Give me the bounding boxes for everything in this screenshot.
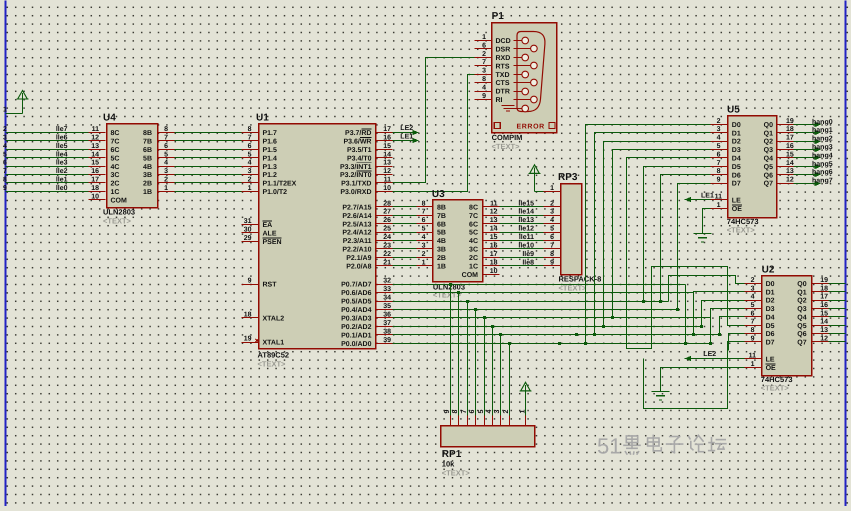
svg-text:8: 8 [248, 126, 252, 133]
wire P0.7/AD7 bus row [393, 284, 686, 286]
svg-text:D1: D1 [766, 289, 775, 296]
svg-text:3B: 3B [143, 172, 152, 179]
wire U5 D2 to P0 bus vertical [602, 142, 711, 329]
svg-text:14: 14 [490, 226, 498, 233]
svg-text:38: 38 [383, 328, 391, 335]
svg-text:ERROR: ERROR [517, 123, 545, 130]
power terminal top-left [3, 91, 28, 114]
svg-text:2C: 2C [111, 181, 120, 188]
wire P0.0/AD0 bus row [393, 343, 711, 345]
svg-text:2: 2 [717, 118, 721, 125]
svg-text:3: 3 [550, 209, 554, 216]
svg-text:P3.7/RD: P3.7/RD [345, 129, 371, 137]
svg-text:14: 14 [91, 151, 99, 158]
wire U1 P2.3 to U3 4B [393, 240, 417, 242]
svg-text:lle9: lle9 [522, 250, 534, 258]
wire lle3 left-edge to U4 pin 15 [3, 159, 89, 167]
U2 pin 3 D1 [745, 285, 775, 296]
svg-text:hang1: hang1 [812, 126, 833, 134]
svg-text:23: 23 [383, 243, 391, 250]
svg-text:P0.0/AD0: P0.0/AD0 [341, 340, 371, 348]
svg-text:11: 11 [92, 126, 100, 133]
U2 pin 18 Q1 to right edge [797, 285, 845, 296]
U1 pin 14 P3.4 [347, 151, 393, 162]
svg-text:XTAL1: XTAL1 [263, 340, 285, 347]
wire P0.3/AD3 bus row [393, 317, 711, 319]
U3 pin 12 output 7C [469, 209, 499, 220]
wire U3 6C to RP3 pin 4 net lle13 [500, 216, 544, 224]
wire RP1 pin 3 pull-up to P0 row [499, 333, 502, 416]
svg-text:COM: COM [111, 198, 128, 205]
RP1 pin 7 [461, 410, 468, 426]
svg-text:1: 1 [519, 410, 526, 414]
svg-text:5: 5 [164, 151, 168, 158]
svg-text:10: 10 [383, 185, 391, 192]
svg-text:P0.3/AD3: P0.3/AD3 [341, 315, 371, 323]
svg-text:29: 29 [244, 235, 252, 242]
svg-text:9: 9 [248, 278, 252, 285]
U1 pin 32 P0.7/AD7 [341, 278, 392, 289]
svg-text:lle3: lle3 [56, 159, 68, 167]
svg-text:1C: 1C [469, 264, 478, 271]
U5 pin 14 Q5 to terminal hang5 [764, 160, 833, 171]
svg-text:lle8: lle8 [522, 258, 534, 266]
U1 pin 5 P1.4 [242, 151, 278, 162]
wire under-route to U2 D7 [644, 342, 745, 409]
svg-text:34: 34 [383, 295, 391, 302]
U2 pin 16 Q3 to right edge [797, 302, 845, 313]
svg-text:8C: 8C [469, 204, 478, 211]
U4 pin 8 output 8B [143, 126, 174, 137]
U5 pin 12 Q7 to terminal hang7 [764, 177, 833, 188]
U3 pin 15 output 4C [469, 234, 499, 245]
wire U5 D4 loop via over-route to U2 D5 [627, 158, 745, 349]
wire U5 D3 to P0 bus vertical [611, 150, 711, 320]
svg-text:18: 18 [490, 259, 498, 266]
wire P0.7 cross vertical [684, 285, 687, 346]
U1 pin 16 P3.6 [343, 135, 392, 146]
wire lle0 left-edge to U4 pin 18 [3, 184, 89, 192]
svg-text:2: 2 [422, 251, 426, 258]
U1 pin 8 P1.7 [242, 126, 278, 137]
svg-text:13: 13 [91, 143, 99, 150]
U2 pin 5 D3 [745, 302, 775, 313]
svg-text:11: 11 [384, 177, 392, 184]
svg-text:1: 1 [3, 107, 7, 114]
svg-text:hang0: hang0 [812, 118, 833, 126]
svg-text:10k: 10k [442, 460, 455, 469]
U2 pin 13 Q6 to right edge [797, 327, 845, 338]
wire P1 TXD to U1 P3.0/RXD [393, 75, 475, 192]
U4 pin 12 input 7C [89, 135, 120, 146]
resistor pack RP3 RESPACK-8 body [558, 172, 601, 292]
svg-text:P3.2/INT0: P3.2/INT0 [340, 171, 372, 179]
wire RP1 pin 9 pull-up to P0 row [449, 283, 452, 416]
resistor pack RP1 10k body [441, 426, 535, 478]
svg-text:P1: P1 [492, 11, 505, 22]
wire over-route to U2 D0 [669, 276, 745, 302]
svg-text:DSR: DSR [496, 46, 511, 53]
svg-text:TXD: TXD [496, 72, 510, 79]
svg-text:32: 32 [383, 278, 391, 285]
U3 pin 1 input 1B [417, 259, 446, 270]
RP3 pin 8 [544, 251, 561, 258]
svg-text:6: 6 [717, 151, 721, 158]
svg-text:36: 36 [383, 312, 391, 319]
svg-text:2: 2 [550, 200, 554, 207]
svg-text:D6: D6 [766, 331, 775, 338]
svg-text:4: 4 [482, 85, 486, 92]
svg-text:P2.5/A13: P2.5/A13 [342, 220, 371, 228]
RP3 pin 6 [544, 234, 561, 241]
wire U4 1B to U1 P1.0 [175, 191, 242, 193]
U1 pin 9 RST [242, 278, 278, 289]
wire U3 4C to RP3 pin 6 net lle11 [500, 233, 544, 241]
svg-text:6B: 6B [143, 147, 152, 154]
svg-text:<TEXT>: <TEXT> [492, 142, 521, 151]
svg-text:<TEXT>: <TEXT> [727, 226, 756, 235]
svg-text:P0.5/AD5: P0.5/AD5 [341, 298, 371, 306]
svg-text:16: 16 [820, 302, 828, 309]
wire U1 P2.0 to U3 1B [393, 265, 417, 267]
svg-text:Q1: Q1 [797, 289, 806, 296]
U3 pin 18 output 1C [469, 259, 499, 270]
RP3 pin 3 [544, 209, 561, 216]
RP3 pin 4 [544, 217, 561, 224]
svg-text:P3.1/TXD: P3.1/TXD [341, 180, 371, 188]
svg-text:16: 16 [383, 135, 391, 142]
svg-text:22: 22 [383, 251, 391, 258]
wire U5 D0 to P0 bus vertical [584, 125, 711, 346]
svg-text:6: 6 [482, 42, 486, 49]
driver U3 ULN2803 body [432, 189, 483, 299]
wire U5 D6 vertical to P0.5 row [659, 175, 711, 304]
U1 pin 19 XTAL1 [242, 336, 285, 347]
wire RP1 pin 8 pull-up to P0 row [457, 291, 460, 416]
wire U1 P2.1 to U3 2B [393, 257, 417, 259]
svg-text:P3.3/INT1: P3.3/INT1 [340, 163, 372, 171]
svg-text:15: 15 [490, 234, 498, 241]
svg-text:27: 27 [383, 209, 391, 216]
svg-text:12: 12 [786, 177, 794, 184]
svg-text:ALE: ALE [263, 231, 277, 238]
svg-text:D4: D4 [766, 314, 775, 321]
svg-text:U4: U4 [103, 113, 116, 124]
svg-text:D3: D3 [766, 306, 775, 313]
svg-text:D4: D4 [732, 156, 741, 163]
svg-text:D5: D5 [766, 323, 775, 330]
svg-text:12: 12 [91, 135, 99, 142]
P1 pin 3 TXD [475, 68, 510, 79]
svg-text:Q5: Q5 [764, 164, 773, 171]
svg-text:13: 13 [490, 217, 498, 224]
svg-text:9: 9 [3, 185, 7, 192]
svg-text:Q3: Q3 [764, 147, 773, 154]
svg-text:5: 5 [550, 226, 554, 233]
svg-text:11: 11 [749, 352, 757, 359]
svg-text:3: 3 [751, 285, 755, 292]
U4 pin 5 output 5B [143, 151, 174, 162]
svg-text:13: 13 [786, 168, 794, 175]
U5 pin 15 Q4 to terminal hang4 [764, 151, 833, 162]
U1 pin 15 P3.5 [347, 143, 393, 154]
U3 pin 17 output 2C [469, 251, 499, 262]
ground symbol for U2 OE [652, 392, 670, 401]
svg-text:P1.3: P1.3 [263, 164, 278, 171]
svg-text:18: 18 [91, 185, 99, 192]
U2 pin 17 Q2 to right edge [797, 294, 845, 305]
P1 pin 1 DCD [475, 34, 511, 45]
svg-text:7B: 7B [437, 213, 446, 220]
wire U3 7C to RP3 pin 3 net lle14 [500, 208, 544, 216]
junction dot on P0.0 row [558, 342, 561, 345]
svg-text:1: 1 [422, 259, 426, 266]
svg-text:RXD: RXD [496, 55, 511, 62]
svg-text:17: 17 [91, 177, 99, 184]
U2 pin 12 Q7 to right edge [797, 335, 845, 346]
svg-text:lle12: lle12 [518, 225, 534, 233]
svg-text:1: 1 [717, 202, 721, 209]
svg-text:31: 31 [244, 218, 252, 225]
svg-text:6C: 6C [469, 221, 478, 228]
svg-text:4C: 4C [111, 164, 120, 171]
svg-text:11: 11 [715, 193, 723, 200]
svg-text:P1.0/T2: P1.0/T2 [263, 188, 288, 196]
svg-text:Q5: Q5 [797, 323, 806, 330]
svg-text:28: 28 [383, 200, 391, 207]
RP3 pin 1 common with power terminal [529, 165, 561, 192]
svg-text:lle1: lle1 [56, 176, 68, 184]
svg-text:lle4: lle4 [56, 150, 68, 158]
svg-text:<TEXT>: <TEXT> [103, 217, 132, 226]
RP1 pin 8 [452, 410, 459, 426]
wire U5 D1 to P0 bus vertical [593, 133, 711, 337]
svg-text:Q7: Q7 [797, 340, 806, 347]
svg-text:Q3: Q3 [797, 306, 806, 313]
svg-text:3: 3 [3, 135, 7, 142]
wire U4 7B to U1 P1.6 [175, 140, 242, 142]
svg-text:19: 19 [244, 336, 252, 343]
svg-text:6: 6 [550, 234, 554, 241]
P1 DB9 connector graphic [508, 32, 545, 112]
wire U3 1C to RP3 pin 9 net lle8 [500, 258, 544, 266]
svg-text:5B: 5B [143, 155, 152, 162]
svg-text:2B: 2B [143, 181, 152, 188]
wire lle6 left-edge to U4 pin 12 [3, 134, 89, 142]
RP1 pin 6 [469, 410, 476, 426]
U3 pin 10 COM [462, 268, 500, 279]
U1 pin 31 EA [242, 218, 273, 229]
svg-text:8C: 8C [111, 130, 120, 137]
svg-text:P2.3/A11: P2.3/A11 [343, 237, 372, 245]
svg-text:lle5: lle5 [56, 142, 68, 150]
svg-text:15: 15 [786, 151, 794, 158]
svg-text:2: 2 [248, 177, 252, 184]
U4 pin 10 COM [89, 193, 128, 204]
svg-text:18: 18 [786, 126, 794, 133]
wire U1 P2.6 to U3 7B [393, 215, 417, 217]
svg-text:7: 7 [461, 410, 468, 414]
svg-text:lle10: lle10 [518, 242, 534, 250]
svg-text:5C: 5C [469, 230, 478, 237]
U4 pin 2 output 2B [143, 177, 174, 188]
U1 pin 24 P2.3/A11 [343, 234, 393, 245]
svg-text:P3.5/T1: P3.5/T1 [347, 146, 372, 154]
svg-text:D7: D7 [732, 181, 741, 188]
svg-text:lle2: lle2 [56, 167, 68, 175]
svg-text:12: 12 [383, 168, 391, 175]
U2 pin 2 D0 [745, 277, 775, 288]
svg-text:1: 1 [550, 185, 554, 192]
svg-text:LE2: LE2 [400, 125, 413, 132]
mcu U1 AT89C52 body [256, 113, 376, 369]
svg-text:RTS: RTS [496, 63, 510, 70]
U4 pin 17 input 2C [89, 177, 120, 188]
svg-text:Q2: Q2 [764, 139, 773, 146]
svg-text:6: 6 [469, 410, 476, 414]
svg-text:3C: 3C [111, 172, 120, 179]
svg-text:16: 16 [490, 243, 498, 250]
svg-text:PSEN: PSEN [263, 239, 282, 246]
U1 pin 28 P2.7/A15 [342, 200, 392, 211]
svg-text:5B: 5B [437, 230, 446, 237]
wire lle4 left-edge to U4 pin 14 [3, 150, 89, 158]
svg-text:7B: 7B [143, 139, 152, 146]
U1 pin 17 P3.7 [345, 126, 392, 137]
U2 pin 8 D6 [745, 327, 775, 338]
U1 pin 7 P1.6 [242, 135, 278, 146]
svg-text:Q6: Q6 [797, 331, 806, 338]
wire U2 D6 feed [729, 334, 745, 351]
wire U3 5C to RP3 pin 5 net lle12 [500, 225, 544, 233]
U2 pin 1 OE to ground [661, 361, 777, 392]
svg-text:Q4: Q4 [797, 314, 806, 321]
terminal LE1 from U1 P3.6/WR [393, 134, 419, 144]
wire U4 3B to U1 P1.2 [175, 174, 242, 176]
wire RP1 pin 7 pull-up to P0 row [466, 300, 469, 416]
U1 pin 2 P1.1/T2EX [242, 177, 297, 188]
svg-text:24: 24 [383, 234, 391, 241]
U3 pin 7 input 7B [417, 209, 446, 220]
svg-text:13: 13 [820, 327, 828, 334]
svg-text:P2.7/A15: P2.7/A15 [342, 203, 371, 211]
wire U1 P2.4 to U3 5B [393, 232, 417, 234]
svg-text:8: 8 [482, 76, 486, 83]
U3 pin 16 output 3C [469, 243, 499, 254]
svg-text:4B: 4B [143, 164, 152, 171]
svg-text:D6: D6 [732, 172, 741, 179]
P1 internal ground symbol [502, 106, 515, 112]
U5 pin 18 Q1 to terminal hang1 [764, 126, 833, 137]
svg-text:3: 3 [494, 410, 501, 414]
svg-text:EA: EA [263, 222, 273, 229]
U4 pin 6 output 6B [143, 143, 174, 154]
U1 pin 33 P0.6/AD6 [341, 286, 392, 297]
svg-text:12: 12 [490, 209, 498, 216]
U1 pin 22 P2.1/A9 [346, 251, 392, 262]
svg-text:Q0: Q0 [764, 122, 773, 129]
svg-text:35: 35 [383, 303, 391, 310]
svg-text:1C: 1C [111, 189, 120, 196]
svg-text:5: 5 [3, 151, 7, 158]
U2 pin 9 D7 [745, 335, 775, 346]
svg-text:lle0: lle0 [56, 184, 68, 192]
U1 pin 34 P0.5/AD5 [341, 295, 392, 306]
svg-text:P2.4/A12: P2.4/A12 [342, 229, 371, 237]
svg-text:3: 3 [717, 126, 721, 133]
U4 pin 3 output 3B [143, 168, 174, 179]
svg-text:1: 1 [482, 34, 486, 41]
RP3 pin 9 [544, 259, 561, 266]
svg-text:<TEXT>: <TEXT> [761, 384, 790, 393]
svg-text:18: 18 [820, 285, 828, 292]
svg-text:14: 14 [786, 160, 794, 167]
U4 pin 1 output 1B [143, 185, 174, 196]
svg-text:12: 12 [820, 335, 828, 342]
U2 pin 7 D5 [745, 319, 775, 330]
U1 pin 6 P1.5 [242, 143, 278, 154]
svg-text:7C: 7C [111, 139, 120, 146]
svg-text:14: 14 [820, 319, 828, 326]
svg-text:8B: 8B [437, 204, 446, 211]
svg-text:Q7: Q7 [764, 181, 773, 188]
svg-text:LE: LE [732, 198, 741, 205]
wire lle5 left-edge to U4 pin 13 [3, 142, 89, 150]
svg-text:17: 17 [786, 135, 794, 142]
svg-text:4: 4 [751, 294, 755, 301]
wire U4 5B to U1 P1.4 [175, 157, 242, 159]
RP3 pin 5 [544, 226, 561, 233]
svg-text:51: 51 [597, 434, 621, 459]
P1 pin 2 RXD [475, 51, 511, 62]
svg-text:ULN2803: ULN2803 [103, 208, 135, 217]
svg-text:3: 3 [422, 243, 426, 250]
svg-text:17: 17 [383, 126, 391, 133]
U3 pin 14 output 5C [469, 226, 499, 237]
U1 pin 35 P0.4/AD4 [341, 303, 392, 314]
U4 pin 11 input 8C [89, 126, 120, 137]
svg-text:2: 2 [503, 410, 510, 414]
svg-text:5: 5 [717, 143, 721, 150]
wire U4 6B to U1 P1.5 [175, 149, 242, 151]
U1 pin 1 P1.0/T2 [242, 185, 288, 196]
wire U1 P2.2 to U3 3B [393, 248, 417, 250]
U2 pin 6 D4 [745, 310, 775, 321]
U3 pin 11 output 8C [469, 200, 499, 211]
terminal LE2 from U1 P3.7/RD [393, 125, 419, 135]
svg-text:hang7: hang7 [812, 177, 833, 185]
svg-text:19: 19 [820, 277, 828, 284]
svg-text:6: 6 [422, 217, 426, 224]
U5 pin 9 D7 [711, 177, 741, 188]
svg-text:2C: 2C [469, 255, 478, 262]
svg-text:30: 30 [244, 227, 252, 234]
svg-text:16: 16 [91, 168, 99, 175]
svg-text:3: 3 [164, 168, 168, 175]
U4 pin 14 input 5C [89, 151, 120, 162]
U1 pin 11 P3.1 [341, 177, 392, 188]
svg-text:4: 4 [486, 410, 493, 414]
svg-text:hang4: hang4 [812, 151, 833, 159]
P1 pin 4 DTR [475, 85, 510, 96]
svg-text:4: 4 [248, 160, 252, 167]
svg-text:4: 4 [422, 234, 426, 241]
wire P1 RXD to U1 P3.1/TXD [393, 58, 475, 183]
svg-text:10: 10 [490, 268, 498, 275]
wire RP1 pin 4 pull-up to P0 row [491, 325, 494, 416]
svg-text:P3.0/RXD: P3.0/RXD [340, 188, 371, 196]
svg-text:U3: U3 [432, 189, 445, 200]
